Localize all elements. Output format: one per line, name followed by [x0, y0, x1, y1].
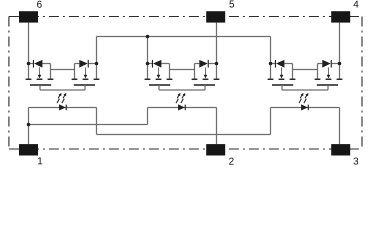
pin 6 number label	[37, 1, 42, 8]
pin 1 number label	[38, 157, 42, 164]
pin 4 number label	[353, 1, 358, 8]
transistor Q2b gate plate	[194, 84, 215, 86]
wire pin1 riser	[28, 108, 30, 145]
LED D2 emission arrows	[176, 93, 185, 103]
node ch1 left junction	[27, 62, 31, 66]
wire LED2 anode riser	[147, 108, 149, 125]
wire ch3 gate bus	[282, 89, 328, 91]
transistor Q1b source contact	[72, 78, 78, 80]
package outline left (dash-dot border)	[8, 17, 10, 150]
transistor Q2a source contact	[167, 78, 173, 80]
node ch1 right junction	[95, 62, 99, 66]
transistor Q3a drain stub	[270, 64, 272, 79]
wire ch3 gate drop right	[327, 85, 329, 90]
wire pin5 to ch2 right node	[216, 23, 218, 64]
transistor Q3a gate plate	[272, 84, 293, 86]
node ch3 right junction	[338, 62, 342, 66]
transistor Q2a body contact	[156, 78, 162, 80]
transistor Q3a body contact	[279, 78, 285, 80]
pin 1 terminal pad	[19, 144, 38, 155]
transistor Q1a body contact	[37, 78, 43, 80]
package outline top (dash-dot border)	[9, 16, 362, 18]
wire pin1-LED2 link	[29, 124, 148, 126]
wire LED3 cathode to pin3	[339, 108, 341, 145]
wire LED1 cathode drop	[96, 108, 98, 135]
transistor Q3a source contact	[290, 78, 296, 80]
wire ch2 node line left	[148, 63, 153, 65]
transistor Q3b source stub	[317, 64, 319, 79]
node rail junction	[146, 35, 150, 39]
wire ch1 gate drop right	[84, 85, 86, 90]
transistor Q1a drain stub	[28, 64, 30, 79]
transistor Q1b body arrow	[84, 67, 88, 78]
transistor Q2a source stub	[169, 64, 171, 79]
transistor Q3b drain contact	[337, 78, 343, 80]
diode D1a (body diode)	[33, 60, 43, 68]
transistor Q3b gate plate	[317, 84, 338, 86]
wire ch3 diode1-to-source-corner	[284, 63, 292, 65]
LED D3 (input LED ch3)	[301, 104, 309, 110]
transistor Q1b gate plate	[74, 84, 95, 86]
transistor Q2a gate plate	[149, 84, 170, 86]
pin 5 number label	[229, 1, 234, 8]
wire ch3 diode2-to-node	[332, 63, 340, 65]
wire ch2 gate drop right	[204, 85, 206, 90]
transistor Q3b source contact	[315, 78, 321, 80]
wire ch2 left node riser	[147, 37, 149, 64]
wire LED2 line	[148, 107, 217, 109]
transistor Q3a drain contact	[268, 78, 274, 80]
transistor Q2a drain stub	[147, 64, 149, 79]
pin 4 terminal pad	[331, 11, 350, 22]
wire LED3 line	[271, 107, 340, 109]
package outline right (dash-dot border)	[361, 17, 363, 150]
wire ch3 gate drop left	[281, 85, 283, 90]
wire ch1 source bus	[51, 69, 75, 71]
transistor Q2b body contact	[203, 78, 209, 80]
node ch3 left junction	[269, 62, 273, 66]
transistor Q2b drain stub	[216, 64, 218, 79]
LED D3 emission arrows	[299, 93, 308, 103]
transistor Q1b drain contact	[94, 78, 100, 80]
transistor Q3a body arrow	[280, 67, 284, 78]
transistor Q3b drain stub	[339, 64, 341, 79]
transistor Q3b body arrow	[327, 67, 331, 78]
diode D3b (body diode)	[322, 60, 332, 68]
wire LED1 anode line	[29, 107, 97, 109]
wire LED3 anode riser	[270, 108, 272, 135]
transistor Q2b source stub	[194, 64, 196, 79]
wire ch2 diode1-to-source-corner	[161, 63, 169, 65]
wire ch3 source bus	[293, 69, 318, 71]
transistor Q2a body arrow	[157, 67, 161, 78]
wire ch2 gate bus	[159, 89, 205, 91]
transistor Q2a drain contact	[145, 78, 151, 80]
pin 2 terminal pad	[206, 144, 225, 155]
wire ch1 node line left	[29, 63, 34, 65]
pin 5 terminal pad	[206, 11, 225, 22]
node pin1 branch junction	[27, 123, 31, 127]
wire ch1 diode1-to-source-corner	[42, 63, 50, 65]
transistor Q1a source contact	[48, 78, 54, 80]
node ch2 right junction	[215, 62, 219, 66]
transistor Q1a drain contact	[26, 78, 32, 80]
wire ch1 gate bus	[40, 89, 85, 91]
transistor Q2b drain contact	[214, 78, 220, 80]
pin 3 terminal pad	[331, 144, 350, 155]
transistor Q1b source stub	[74, 64, 76, 79]
transistor Q1a gate plate	[30, 84, 51, 86]
transistor Q1a body arrow	[38, 67, 42, 78]
transistor Q3a source stub	[292, 64, 294, 79]
diode D2b (body diode)	[199, 60, 209, 68]
transistor Q2b source contact	[192, 78, 198, 80]
wire common rail	[97, 36, 271, 38]
wire ch3 left node riser	[270, 37, 272, 64]
LED D2 (input LED ch2)	[178, 104, 186, 110]
transistor Q3b body contact	[326, 78, 332, 80]
diode D3a (body diode)	[275, 60, 285, 68]
node ch2 left junction	[146, 62, 150, 66]
package outline bottom (dash-dot border)	[9, 148, 362, 150]
pin 6 terminal pad	[19, 11, 38, 22]
wire ch1 diode2-to-node	[89, 63, 97, 65]
transistor Q1a source stub	[50, 64, 52, 79]
wire ch3 corner-to-diode2	[318, 63, 323, 65]
wire ch1 corner-to-diode2	[75, 63, 80, 65]
wire ch2 source bus	[170, 69, 195, 71]
wire ch2 diode2-to-node	[209, 63, 217, 65]
wire ch1 right node riser	[96, 37, 98, 64]
diode D2a (body diode)	[152, 60, 162, 68]
diode D1b (body diode)	[79, 60, 88, 68]
wire LED1-LED3 link	[97, 134, 271, 136]
transistor Q1b drain stub	[96, 64, 98, 79]
LED D1 emission arrows	[57, 93, 66, 103]
wire LED2 cathode to pin2	[216, 108, 218, 145]
wire pin4 to ch3 right node	[339, 23, 341, 64]
wire pin6 to ch1 left node	[28, 23, 30, 64]
wire ch1 gate drop left	[39, 85, 41, 90]
transistor Q2b body arrow	[204, 67, 208, 78]
wire ch2 gate drop left	[158, 85, 160, 90]
wire ch3 node line left	[271, 63, 276, 65]
pin 3 number label	[353, 158, 358, 165]
pin 2 number label	[229, 158, 234, 165]
transistor Q1b body contact	[83, 78, 89, 80]
wire ch2 corner-to-diode2	[195, 63, 200, 65]
LED D1 (input LED ch1)	[59, 104, 67, 110]
